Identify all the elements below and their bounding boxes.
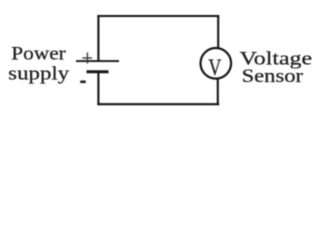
wire right lower bbox=[217, 79, 219, 106]
battery B1 negative plate bbox=[87, 70, 109, 73]
svg-text:V: V bbox=[208, 56, 221, 81]
plus polarity mark bbox=[82, 52, 92, 63]
minus polarity mark bbox=[80, 81, 86, 84]
voltmeter M1 circle bbox=[201, 48, 232, 79]
svg-text:Power: Power bbox=[11, 44, 66, 65]
wire left lower bbox=[97, 72, 99, 106]
wire top bbox=[97, 15, 219, 17]
svg-text:Sensor: Sensor bbox=[242, 66, 304, 87]
wire left upper bbox=[97, 15, 99, 61]
battery B1 positive plate bbox=[76, 60, 119, 62]
wire right upper bbox=[217, 15, 219, 49]
wire bottom bbox=[97, 103, 219, 105]
svg-text:supply: supply bbox=[8, 63, 70, 84]
